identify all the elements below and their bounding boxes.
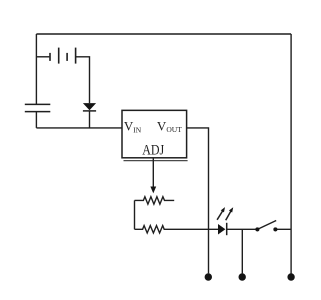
svg-text:OUT: OUT (166, 125, 182, 134)
svg-text:ADJ: ADJ (142, 143, 164, 159)
wire VOUT lead (187, 128, 209, 274)
wire resistor connector vertical (134, 200, 136, 229)
resistor top R1 (135, 197, 175, 204)
svg-text:IN: IN (133, 125, 141, 134)
wire ADJ lead (152, 158, 154, 187)
wire right vertical (290, 34, 292, 274)
switch contact dot B (273, 227, 277, 231)
regulator box bottom shadow (124, 160, 188, 162)
wire left vertical (35, 34, 37, 104)
LED emission arrow shafts (217, 211, 231, 220)
wire switch to right vertical (275, 228, 291, 230)
switch contact dot A (255, 227, 259, 231)
terminal dot 1 (205, 273, 212, 280)
battery (50, 48, 76, 64)
terminal dot 2 (239, 273, 246, 280)
LED cathode bar (226, 223, 228, 235)
diode cathode bar (83, 110, 96, 112)
diode triangle (83, 103, 96, 110)
wire bottom rail to VIN (36, 127, 122, 129)
wire capacitor bottom lead (35, 112, 37, 128)
wire junction down to terminal 2 (241, 229, 243, 273)
wire battery left lead (36, 56, 49, 58)
wire LED to switch (227, 228, 258, 230)
LED emission arrowhead 2 (229, 207, 233, 212)
LED triangle (218, 224, 225, 235)
resistor bottom R2 (135, 226, 219, 233)
ADJ arrowhead (150, 187, 156, 194)
capacitor (25, 104, 51, 111)
switch lever (257, 221, 276, 230)
terminal dot 3 (287, 273, 294, 280)
regulator box U1 (122, 110, 187, 157)
LED emission arrowhead 1 (221, 207, 225, 212)
svg-text:V: V (157, 118, 167, 133)
wire top horizontal (36, 33, 291, 35)
wire diode bottom lead (89, 111, 91, 128)
wire battery right lead down to diode (76, 57, 90, 103)
